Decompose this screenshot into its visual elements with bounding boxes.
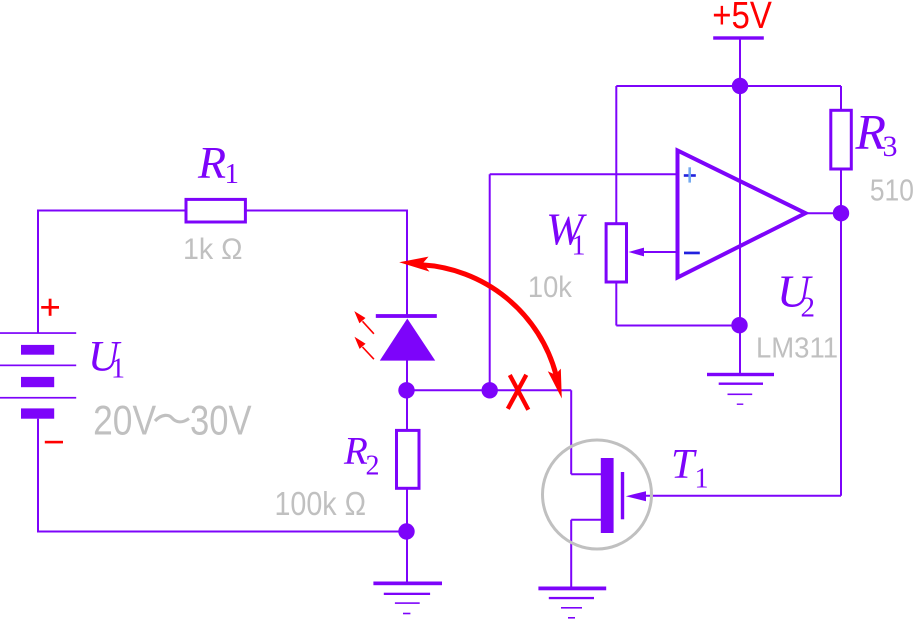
wire plus-input horizontal — [490, 173, 676, 175]
transistor T1 channel bar — [601, 458, 614, 533]
resistor R3 — [831, 110, 852, 169]
label R1 — [197, 137, 239, 190]
svg-text:510: 510 — [870, 173, 914, 208]
label R3 — [855, 104, 898, 163]
wire LED anode vertical — [406, 360, 408, 390]
wire drain horizontal — [571, 473, 601, 475]
svg-text:1: 1 — [695, 464, 709, 495]
node D — [732, 78, 748, 94]
resistor R1 — [186, 199, 245, 222]
ground A — [373, 582, 442, 615]
potentiometer wiper arrow — [629, 248, 645, 257]
svg-text:1k Ω: 1k Ω — [183, 233, 243, 266]
wire battery bottom vertical — [37, 419, 39, 532]
wire output vertical — [840, 213, 842, 496]
wire drain drop vertical — [570, 390, 572, 474]
svg-text:R: R — [855, 104, 887, 160]
wire W1 top vertical — [615, 86, 617, 224]
wire bottom horizontal — [37, 531, 407, 533]
op-amp minus mark — [684, 252, 700, 255]
wire source vertical — [570, 520, 572, 587]
wire R2 top vertical — [406, 390, 408, 430]
wire source horizontal — [571, 519, 601, 521]
label W1 — [546, 204, 587, 261]
wire plus-input vertical — [489, 174, 491, 390]
wire W1 bottom vertical — [615, 282, 617, 326]
+5V power bar — [713, 36, 764, 39]
transistor T1 gate arrowhead — [626, 491, 646, 501]
wire top-right horizontal — [245, 210, 407, 212]
wire +5V vertical — [739, 39, 741, 86]
label U1 — [88, 334, 125, 385]
transistor T1 gate plate — [621, 472, 624, 519]
wire ground-A vertical — [406, 532, 408, 582]
svg-text:R: R — [343, 430, 368, 473]
ground C — [538, 587, 606, 619]
svg-text:1: 1 — [572, 230, 586, 261]
battery minus sign — [45, 441, 63, 444]
svg-text:1: 1 — [111, 353, 125, 384]
node E — [833, 205, 849, 221]
ground B — [707, 373, 774, 405]
LED light arrow 2 — [355, 337, 374, 359]
LED D1 — [376, 314, 437, 361]
wire minus-input horizontal — [643, 251, 676, 253]
wire node row horizontal — [407, 389, 571, 391]
label T1 — [671, 442, 709, 495]
potentiometer W1 — [606, 224, 626, 282]
svg-text:R: R — [197, 137, 226, 188]
svg-text:+5V: +5V — [712, 0, 772, 37]
svg-text:1: 1 — [225, 158, 240, 190]
svg-text:T: T — [671, 442, 697, 488]
wire ground-B vertical — [739, 325, 741, 373]
resistor R2 — [397, 430, 420, 488]
red annotation curved arrow — [399, 257, 562, 399]
wire W1 ground horizontal — [616, 325, 739, 327]
svg-text:100k Ω: 100k Ω — [275, 485, 367, 522]
value 20V~30V — [93, 397, 251, 444]
wire U2 power vertical — [739, 86, 741, 325]
svg-text:10k: 10k — [528, 271, 573, 304]
svg-text:2: 2 — [801, 292, 816, 324]
node C — [398, 523, 414, 539]
svg-text:20V: 20V — [93, 397, 156, 444]
node B — [482, 382, 498, 398]
battery U1 — [0, 332, 76, 418]
wire LED drop vertical — [406, 210, 408, 315]
wire R3 bottom vertical — [840, 169, 842, 213]
wire top rail horizontal — [616, 85, 841, 87]
label U2 — [777, 266, 815, 324]
node A — [398, 382, 414, 398]
op-amp plus mark — [684, 167, 696, 182]
battery plus sign — [41, 299, 59, 316]
LED light arrow 1 — [354, 311, 374, 334]
svg-text:2: 2 — [366, 451, 380, 482]
transistor T1 circle — [543, 440, 652, 549]
svg-text:3: 3 — [883, 130, 898, 163]
red X mark — [508, 375, 529, 410]
wire R2 bottom vertical — [406, 488, 408, 531]
wire R3 top vertical — [840, 86, 842, 110]
label R2 — [343, 430, 380, 482]
op-amp U2 — [678, 151, 806, 278]
svg-text:30V: 30V — [190, 397, 252, 444]
wire top-left horizontal — [38, 210, 186, 212]
wire output horizontal — [806, 212, 842, 214]
svg-text:LM311: LM311 — [756, 333, 838, 365]
wire gate horizontal — [644, 495, 841, 497]
wire left vertical — [37, 210, 39, 334]
node F — [731, 317, 747, 333]
